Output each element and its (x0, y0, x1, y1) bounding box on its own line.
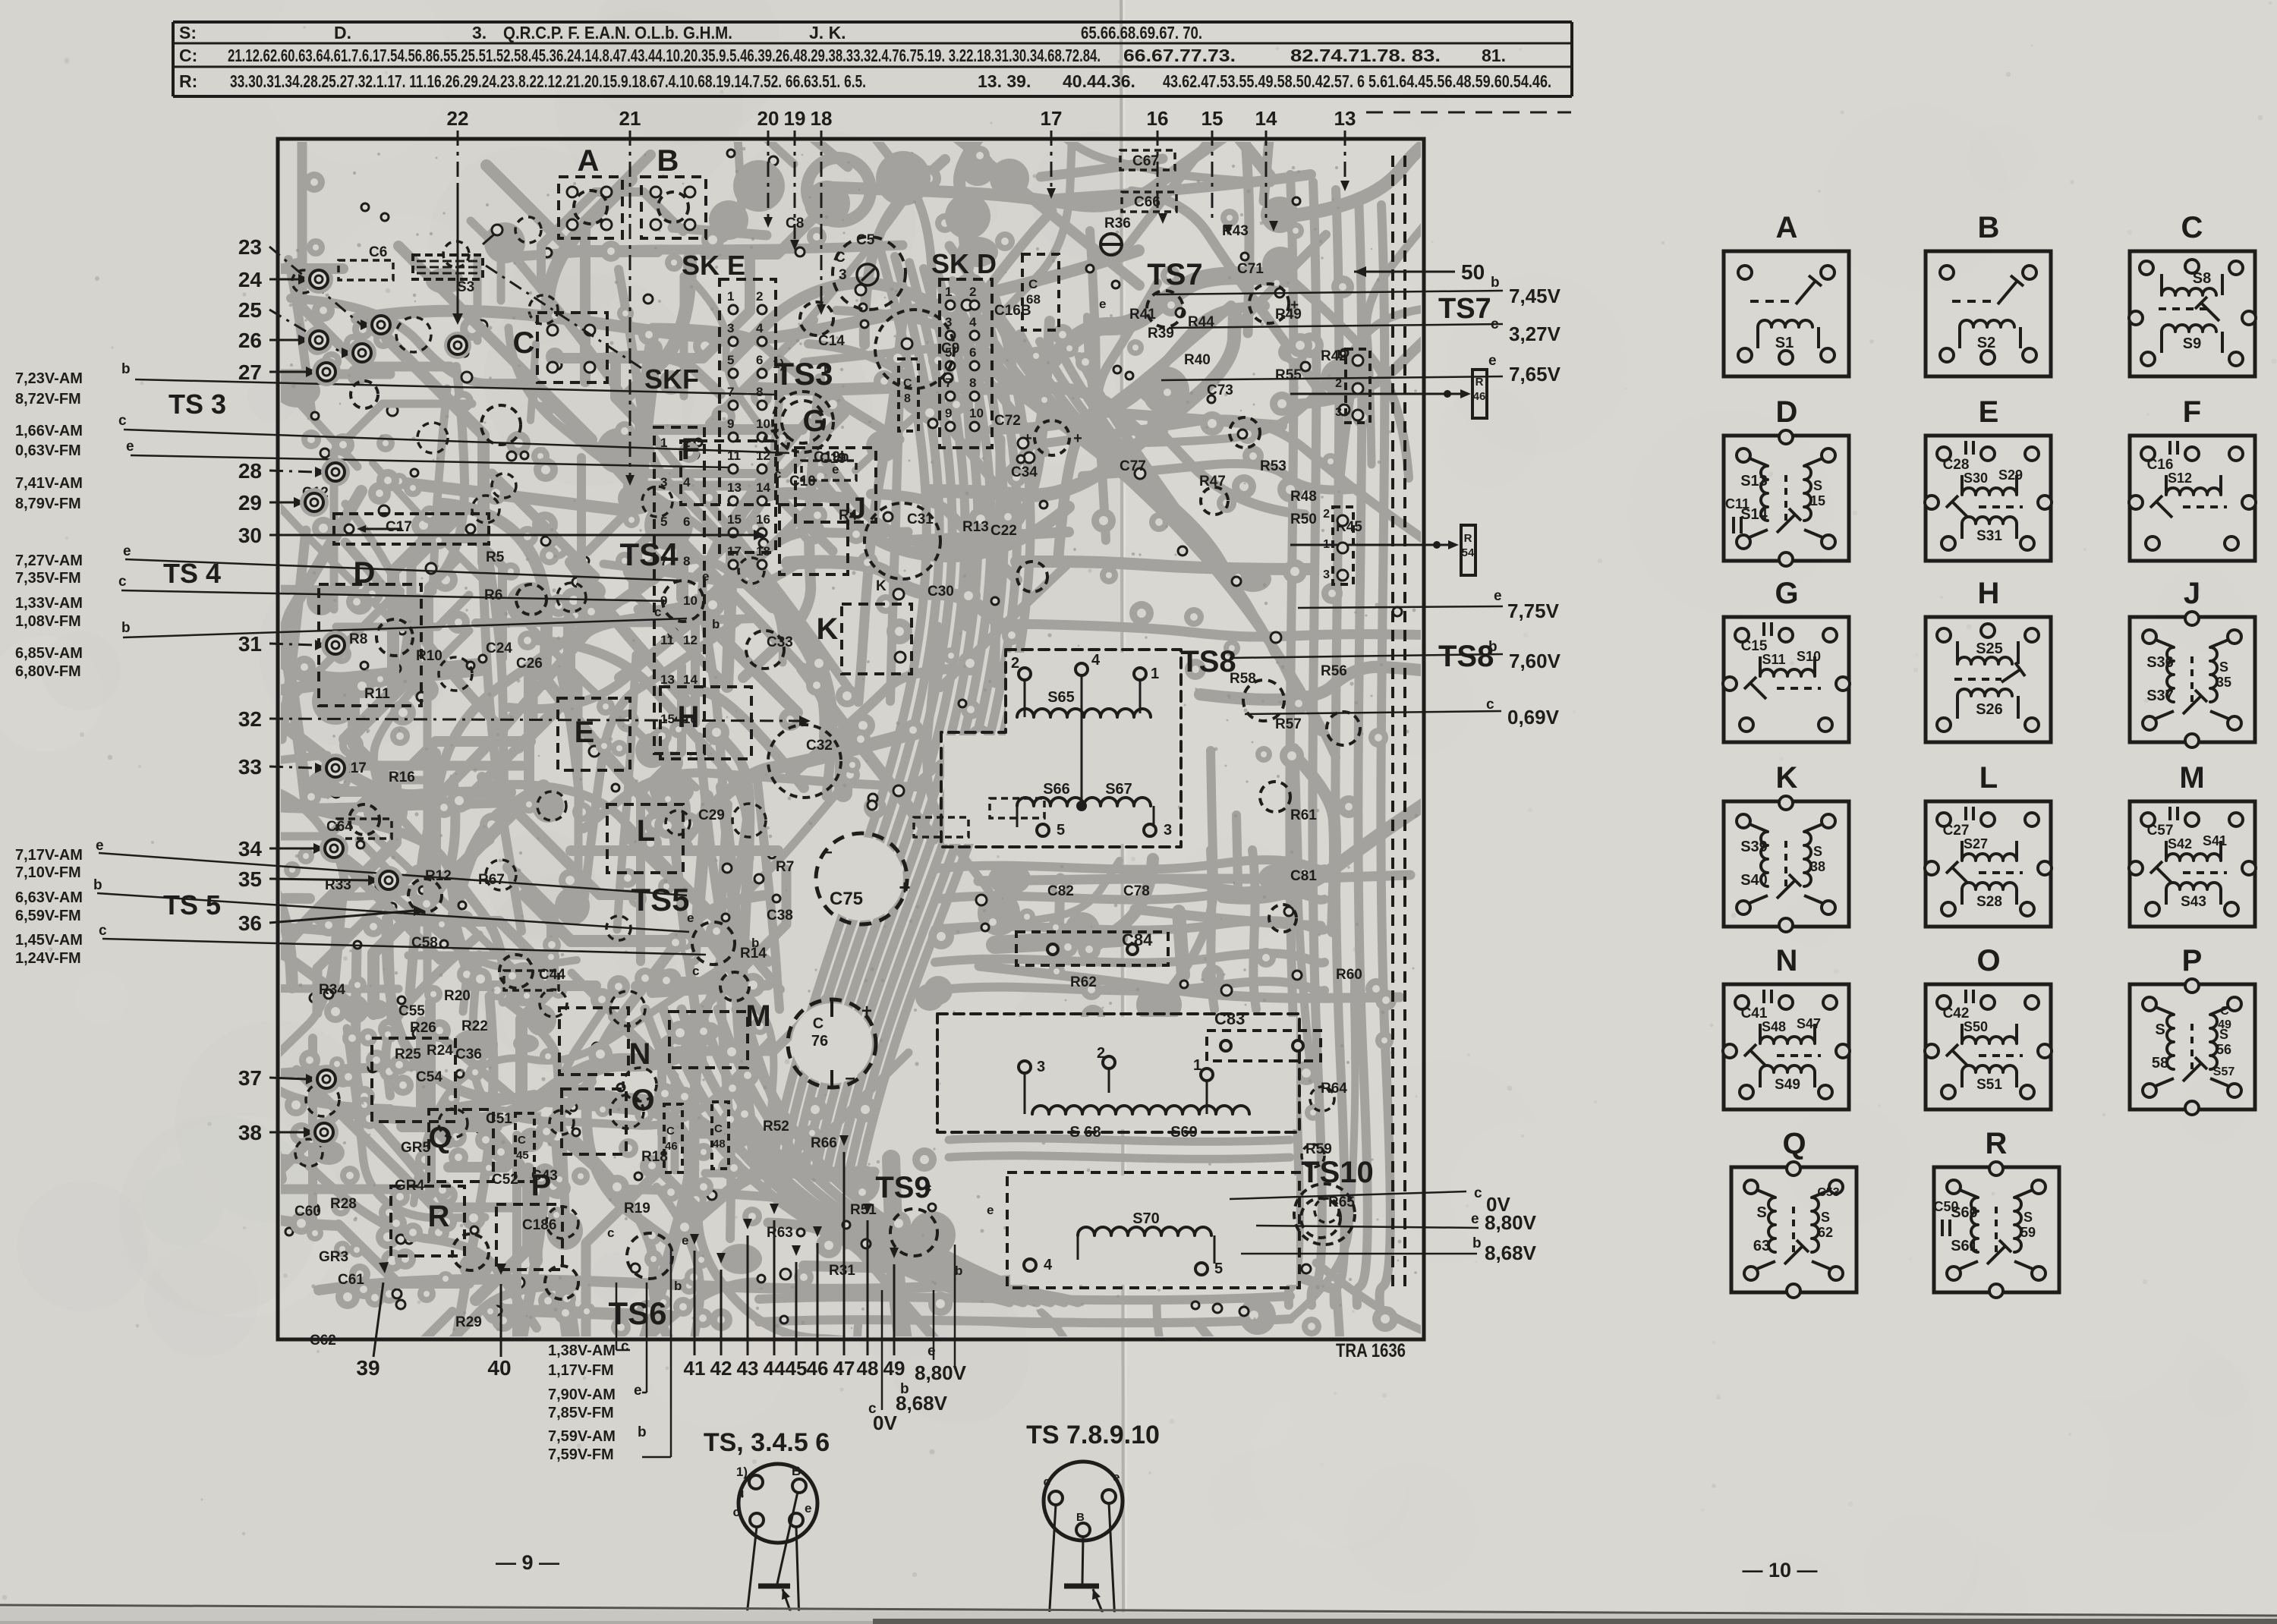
svg-text:S: S (1756, 1204, 1766, 1221)
svg-text:C16B: C16B (994, 303, 1031, 319)
svg-text:1,66V-AM: 1,66V-AM (15, 423, 83, 439)
svg-text:C26: C26 (516, 656, 543, 672)
svg-text:43.62.47.53.55.49.58.50.42.57.: 43.62.47.53.55.49.58.50.42.57. 6 5.61.64… (1163, 71, 1551, 91)
svg-text:2: 2 (1323, 508, 1330, 521)
svg-text:b: b (1488, 639, 1498, 655)
svg-text:6: 6 (683, 515, 690, 529)
svg-text:R: R (1475, 376, 1484, 389)
svg-text:S43: S43 (2181, 894, 2206, 910)
svg-text:O: O (1976, 944, 2000, 977)
svg-text:35: 35 (2216, 675, 2231, 690)
svg-text:R11: R11 (364, 686, 390, 702)
svg-text:C17: C17 (386, 519, 412, 535)
svg-text:c: c (621, 1339, 629, 1355)
svg-text:C60: C60 (294, 1204, 321, 1220)
svg-text:16: 16 (1147, 107, 1169, 130)
svg-text:R20: R20 (444, 988, 471, 1004)
svg-text:R8: R8 (349, 631, 367, 647)
svg-text:C22: C22 (990, 523, 1017, 539)
svg-text:S66: S66 (1043, 781, 1070, 798)
svg-text:1,08V-FM: 1,08V-FM (15, 613, 81, 630)
svg-text:23: 23 (238, 235, 262, 259)
svg-text:C78: C78 (1123, 883, 1150, 899)
svg-text:C:: C: (179, 46, 197, 65)
svg-text:N: N (629, 1037, 651, 1071)
svg-text:8,68V: 8,68V (896, 1392, 948, 1415)
svg-text:R61: R61 (1290, 807, 1317, 823)
svg-text:TS 5: TS 5 (163, 889, 221, 921)
svg-text:8,68V: 8,68V (1485, 1242, 1537, 1264)
svg-text:6,80V-FM: 6,80V-FM (15, 663, 81, 680)
svg-text:6,63V-AM: 6,63V-AM (15, 889, 83, 906)
svg-text:C9: C9 (941, 341, 959, 357)
svg-text:4: 4 (756, 321, 764, 335)
svg-text:S: S (2155, 1021, 2165, 1038)
svg-text:R: R (428, 1200, 450, 1233)
svg-text:S10: S10 (1797, 649, 1821, 664)
svg-text:S69: S69 (1170, 1124, 1198, 1141)
svg-text:5: 5 (1214, 1260, 1223, 1277)
svg-text:C6: C6 (369, 244, 387, 260)
svg-text:49: 49 (883, 1357, 905, 1380)
svg-text:S: S (1813, 478, 1822, 493)
svg-text:R19: R19 (624, 1201, 650, 1216)
svg-text:7,23V-AM: 7,23V-AM (15, 370, 83, 387)
svg-text:C19b: C19b (814, 449, 849, 465)
svg-text:37: 37 (238, 1066, 262, 1090)
svg-text:7,90V-AM: 7,90V-AM (548, 1386, 616, 1403)
svg-text:b: b (824, 362, 831, 376)
svg-text:b: b (121, 361, 131, 377)
svg-text:TS8: TS8 (1180, 645, 1236, 678)
svg-text:6,59V-FM: 6,59V-FM (15, 908, 81, 924)
svg-text:TS7: TS7 (1438, 293, 1491, 325)
svg-text:1,38V-AM: 1,38V-AM (548, 1342, 616, 1359)
svg-text:R6: R6 (484, 587, 502, 603)
svg-text:R14: R14 (740, 946, 767, 961)
svg-text:c: c (924, 1180, 931, 1194)
svg-text:R31: R31 (829, 1263, 855, 1279)
svg-text:C32: C32 (806, 738, 833, 754)
svg-text:S1: S1 (1775, 335, 1794, 351)
svg-text:15: 15 (727, 512, 742, 527)
svg-text:TS5: TS5 (631, 882, 689, 917)
svg-text:C50: C50 (1933, 1199, 1958, 1214)
svg-text:5: 5 (660, 515, 667, 529)
svg-text:9: 9 (945, 406, 952, 420)
svg-text:e: e (702, 569, 709, 584)
svg-text:C: C (714, 1122, 723, 1135)
svg-text:S70: S70 (1132, 1210, 1160, 1227)
svg-text:GR5: GR5 (401, 1140, 431, 1156)
svg-text:c: c (1486, 697, 1494, 713)
svg-text:R7: R7 (776, 859, 794, 875)
svg-text:81.: 81. (1482, 46, 1506, 65)
svg-text:R42: R42 (1321, 348, 1347, 364)
svg-text:18: 18 (811, 107, 833, 130)
svg-text:D.: D. (334, 23, 351, 42)
svg-text:Q: Q (428, 1121, 452, 1154)
svg-text:e: e (126, 439, 134, 455)
svg-text:7,17V-AM: 7,17V-AM (15, 847, 83, 864)
svg-text:R34: R34 (319, 982, 345, 998)
svg-text:C34: C34 (1011, 464, 1038, 480)
svg-text:e: e (123, 543, 131, 559)
svg-text:30: 30 (238, 524, 262, 547)
svg-text:7,45V: 7,45V (1509, 285, 1561, 307)
svg-text:C44: C44 (539, 967, 565, 983)
svg-text:C73: C73 (1207, 382, 1233, 398)
svg-text:C54: C54 (416, 1069, 442, 1085)
svg-text:3: 3 (1164, 822, 1172, 839)
svg-text:S 68: S 68 (1069, 1124, 1101, 1141)
svg-text:C: C (518, 1134, 526, 1147)
svg-text:7,10V-FM: 7,10V-FM (15, 864, 81, 881)
svg-text:R63: R63 (767, 1225, 793, 1241)
svg-text:1: 1 (727, 289, 734, 304)
svg-text:7,59V-AM: 7,59V-AM (548, 1428, 616, 1445)
svg-text:8: 8 (904, 392, 911, 405)
svg-text:19: 19 (784, 107, 806, 130)
svg-text:46: 46 (1473, 390, 1486, 403)
svg-text:48: 48 (713, 1138, 726, 1150)
svg-text:10: 10 (969, 406, 984, 420)
svg-text:34: 34 (238, 837, 263, 861)
svg-text:J: J (2184, 577, 2200, 610)
svg-text:49: 49 (2218, 1018, 2231, 1031)
svg-text:c: c (654, 605, 661, 619)
svg-text:6: 6 (969, 345, 976, 360)
svg-text:b: b (674, 1279, 682, 1293)
svg-text:24: 24 (238, 268, 263, 291)
svg-text:7,60V: 7,60V (1509, 650, 1561, 672)
svg-text:C: C (513, 326, 535, 360)
svg-text:27: 27 (238, 360, 262, 384)
svg-text:P: P (2182, 944, 2203, 977)
svg-text:R53: R53 (1260, 458, 1287, 474)
svg-text:15: 15 (1201, 107, 1224, 130)
svg-text:8: 8 (683, 554, 690, 568)
svg-text:33.30.31.34.28.25.27.32.1.17.: 33.30.31.34.28.25.27.32.1.17. 11.16.26.2… (230, 71, 866, 91)
svg-text:S39: S39 (1740, 839, 1768, 855)
svg-text:56: 56 (2216, 1042, 2231, 1057)
svg-text:R47: R47 (1199, 474, 1226, 489)
svg-text:O: O (631, 1084, 654, 1117)
svg-text:S51: S51 (1976, 1077, 2002, 1093)
svg-text:C11: C11 (1725, 496, 1749, 511)
svg-text:+: + (1023, 430, 1032, 447)
svg-text:R50: R50 (1290, 511, 1317, 527)
svg-text:+: + (1073, 430, 1082, 447)
svg-text:TS 4: TS 4 (163, 558, 221, 589)
svg-text:29: 29 (238, 491, 262, 515)
svg-text:S40: S40 (1740, 872, 1768, 889)
svg-text:E: E (1979, 395, 1999, 429)
svg-text:4: 4 (1091, 652, 1101, 669)
svg-text:38: 38 (238, 1121, 262, 1144)
svg-text:1,33V-AM: 1,33V-AM (15, 595, 83, 612)
svg-text:S:: S: (179, 23, 197, 42)
svg-text:7,75V: 7,75V (1507, 600, 1560, 622)
svg-text:C186: C186 (522, 1217, 556, 1233)
svg-text:F: F (2183, 395, 2201, 429)
svg-text:S42: S42 (2168, 836, 2192, 851)
svg-text:D: D (354, 556, 376, 590)
svg-text:B: B (1076, 1511, 1085, 1524)
svg-text:S31: S31 (1976, 528, 2002, 544)
svg-text:H: H (1978, 577, 2000, 610)
svg-text:C38: C38 (767, 908, 793, 924)
svg-text:39: 39 (356, 1356, 379, 1380)
svg-text:7,65V: 7,65V (1509, 363, 1561, 386)
svg-text:S27: S27 (1964, 836, 1988, 851)
svg-text:2: 2 (756, 289, 763, 304)
svg-text:b: b (93, 877, 102, 893)
svg-text:59: 59 (2020, 1225, 2036, 1240)
svg-text:c: c (1044, 1475, 1050, 1489)
svg-text:c: c (774, 467, 781, 481)
svg-text:b: b (1491, 275, 1500, 291)
svg-text:58: 58 (2152, 1055, 2168, 1072)
svg-text:7: 7 (727, 385, 734, 399)
svg-text:12: 12 (683, 633, 698, 647)
svg-text:SK D: SK D (931, 248, 997, 279)
svg-text:7,85V-FM: 7,85V-FM (548, 1405, 614, 1421)
svg-text:40.44.36.: 40.44.36. (1063, 71, 1135, 91)
svg-text:7: 7 (945, 376, 952, 390)
svg-text:43: 43 (737, 1357, 759, 1380)
svg-text:R22: R22 (461, 1018, 488, 1034)
svg-text:7,41V-AM: 7,41V-AM (15, 475, 83, 492)
svg-text:46: 46 (807, 1357, 829, 1380)
svg-text:B: B (1978, 211, 2000, 244)
svg-text:e: e (805, 1501, 811, 1515)
svg-text:R: R (1986, 1127, 2008, 1160)
svg-text:c: c (607, 1226, 614, 1240)
svg-text:TS9: TS9 (875, 1171, 931, 1204)
svg-text:1: 1 (1193, 1057, 1201, 1074)
svg-text:e: e (682, 1233, 688, 1248)
svg-text:e: e (1113, 1470, 1120, 1484)
svg-text:0,69V: 0,69V (1507, 706, 1560, 729)
svg-text:R58: R58 (1230, 671, 1256, 687)
svg-text:C64: C64 (326, 819, 353, 835)
svg-text:1): 1) (736, 1465, 748, 1479)
svg-text:82.74.71.78. 83.: 82.74.71.78. 83. (1290, 46, 1441, 65)
svg-text:C: C (666, 1125, 675, 1138)
svg-text:8,72V-FM: 8,72V-FM (15, 391, 81, 408)
svg-text:S8: S8 (2193, 270, 2211, 287)
svg-text:C14: C14 (818, 333, 845, 349)
svg-text:R25: R25 (395, 1046, 421, 1062)
svg-text:C30: C30 (927, 584, 954, 600)
svg-text:S26: S26 (1976, 701, 2003, 718)
svg-text:S37: S37 (2146, 688, 2174, 704)
svg-text:R48: R48 (1290, 489, 1317, 505)
svg-text:S49: S49 (1775, 1077, 1800, 1093)
svg-text:8: 8 (756, 385, 763, 399)
svg-text:S47: S47 (1797, 1016, 1821, 1031)
svg-text:46: 46 (665, 1140, 678, 1153)
svg-text:TS 3: TS 3 (168, 389, 226, 420)
svg-text:25: 25 (238, 298, 262, 322)
svg-text:R55: R55 (1275, 367, 1302, 383)
svg-text:S12: S12 (2168, 471, 2192, 486)
svg-text:L: L (637, 814, 655, 848)
svg-text:K: K (876, 578, 887, 594)
svg-text:C77: C77 (1120, 458, 1146, 474)
svg-text:R36: R36 (1104, 216, 1131, 231)
svg-text:K: K (1776, 761, 1798, 795)
svg-text:R40: R40 (1184, 352, 1211, 368)
svg-text:R66: R66 (811, 1135, 837, 1151)
svg-text:GR4: GR4 (395, 1178, 425, 1194)
svg-text:18: 18 (756, 544, 770, 559)
svg-text:Q.R.C.P. F. E.A.N. O.L.b. G.H.: Q.R.C.P. F. E.A.N. O.L.b. G.H.M. (503, 23, 732, 42)
svg-text:S28: S28 (1976, 894, 2002, 910)
svg-text:7,59V-FM: 7,59V-FM (548, 1446, 614, 1463)
svg-text:S: S (1813, 844, 1822, 859)
svg-text:C81: C81 (1290, 868, 1317, 884)
svg-text:c: c (118, 413, 127, 429)
svg-text:S36: S36 (2146, 654, 2174, 671)
svg-text:c: c (118, 574, 127, 590)
svg-text:0,63V-FM: 0,63V-FM (15, 442, 81, 459)
svg-text:— 9 —: — 9 — (496, 1551, 559, 1574)
svg-text:S41: S41 (2203, 833, 2227, 848)
svg-text:C36: C36 (455, 1046, 482, 1062)
svg-text:C61: C61 (338, 1272, 364, 1288)
svg-text:S13: S13 (1740, 473, 1768, 489)
svg-text:C: C (835, 250, 846, 266)
svg-text:1: 1 (1335, 348, 1342, 361)
svg-text:1: 1 (1151, 666, 1159, 682)
svg-text:R57: R57 (1275, 716, 1302, 732)
svg-text:S29: S29 (1998, 467, 2023, 483)
svg-text:1,24V-FM: 1,24V-FM (15, 950, 81, 967)
svg-text:b: b (638, 1424, 647, 1440)
svg-text:13: 13 (660, 672, 675, 687)
svg-text:1,45V-AM: 1,45V-AM (15, 932, 83, 949)
svg-text:M: M (2179, 761, 2204, 795)
svg-text:b: b (955, 1264, 962, 1278)
svg-text:S: S (2023, 1210, 2033, 1225)
svg-text:2: 2 (969, 285, 976, 299)
svg-text:16: 16 (756, 512, 770, 527)
svg-text:1: 1 (1323, 538, 1330, 551)
svg-text:3,27V: 3,27V (1509, 323, 1561, 345)
svg-text:GR3: GR3 (319, 1249, 348, 1265)
svg-text:32: 32 (238, 707, 262, 731)
svg-text:2: 2 (1097, 1045, 1105, 1062)
svg-text:3.: 3. (472, 23, 487, 42)
svg-text:8,79V-FM: 8,79V-FM (15, 496, 81, 512)
svg-text:8,80V: 8,80V (915, 1361, 967, 1384)
svg-text:+: + (861, 1001, 872, 1021)
svg-text:C67: C67 (1132, 153, 1159, 169)
svg-text:S67: S67 (1105, 781, 1132, 798)
svg-text:S57: S57 (2213, 1065, 2235, 1078)
svg-text:c: c (99, 923, 107, 939)
svg-text:R13: R13 (962, 519, 989, 535)
svg-text:SKF: SKF (644, 364, 699, 395)
svg-text:35: 35 (238, 867, 262, 891)
svg-text:48: 48 (857, 1357, 879, 1380)
svg-text:5: 5 (727, 353, 734, 367)
svg-text:54: 54 (1462, 546, 1475, 559)
svg-text:6: 6 (756, 353, 763, 367)
svg-text:J. K.: J. K. (809, 23, 846, 42)
svg-text:R52: R52 (763, 1119, 789, 1135)
svg-text:S9: S9 (2183, 335, 2201, 352)
svg-text:7,35V-FM: 7,35V-FM (15, 570, 81, 587)
svg-text:3: 3 (1037, 1059, 1045, 1075)
svg-text:B: B (792, 1464, 801, 1478)
svg-text:c: c (1474, 1185, 1482, 1201)
svg-text:R:: R: (179, 71, 197, 91)
svg-text:R65: R65 (1328, 1194, 1355, 1210)
svg-text:+: + (1290, 297, 1299, 313)
svg-text:+: + (899, 876, 910, 899)
svg-text:S: S (2219, 659, 2228, 675)
svg-text:2: 2 (1335, 377, 1342, 390)
svg-text:e: e (96, 838, 104, 854)
svg-text:C29: C29 (698, 807, 725, 823)
svg-text:TS8: TS8 (1438, 640, 1494, 673)
svg-text:38: 38 (1810, 859, 1825, 874)
svg-text:36: 36 (238, 911, 262, 935)
svg-text:R41: R41 (1129, 307, 1156, 323)
svg-text:63: 63 (1753, 1238, 1770, 1254)
svg-text:C: C (2181, 211, 2203, 244)
svg-text:21.12.62.60.63.64.61.7.6.17.54: 21.12.62.60.63.64.61.7.6.17.54.56.86.55.… (228, 46, 1101, 65)
svg-text:R59: R59 (1305, 1141, 1332, 1157)
svg-text:S25: S25 (1976, 640, 2003, 657)
svg-text:C58: C58 (411, 935, 438, 951)
svg-text:N: N (1776, 944, 1798, 977)
svg-text:3: 3 (660, 475, 667, 489)
svg-text:H: H (678, 700, 700, 734)
svg-text:c: c (733, 1505, 740, 1519)
svg-text:C31: C31 (907, 511, 934, 527)
svg-text:A: A (1776, 211, 1798, 244)
svg-text:R5: R5 (486, 549, 505, 565)
svg-text:C72: C72 (994, 413, 1021, 429)
svg-text:R29: R29 (455, 1314, 482, 1330)
svg-text:S50: S50 (1964, 1019, 1988, 1034)
svg-text:13: 13 (727, 480, 742, 495)
svg-text:c: c (692, 964, 699, 978)
svg-text:2: 2 (1011, 655, 1019, 672)
svg-text:R24: R24 (427, 1043, 453, 1059)
svg-text:14: 14 (1255, 107, 1277, 130)
svg-text:S65: S65 (1047, 689, 1075, 706)
svg-text:10: 10 (683, 593, 698, 608)
svg-text:31: 31 (238, 632, 262, 656)
svg-text:17: 17 (1041, 107, 1063, 130)
svg-text:R10: R10 (416, 648, 442, 664)
svg-text:C51: C51 (486, 1111, 512, 1127)
svg-text:TS7: TS7 (1147, 258, 1202, 291)
svg-text:R60: R60 (1336, 967, 1362, 983)
svg-text:TRA 1636: TRA 1636 (1336, 1340, 1406, 1361)
svg-text:b: b (712, 617, 720, 631)
svg-text:–: – (845, 1068, 855, 1088)
svg-text:15: 15 (1810, 493, 1825, 508)
svg-text:G: G (1775, 577, 1798, 610)
svg-text:10: 10 (756, 417, 770, 431)
svg-text:9: 9 (727, 417, 734, 431)
